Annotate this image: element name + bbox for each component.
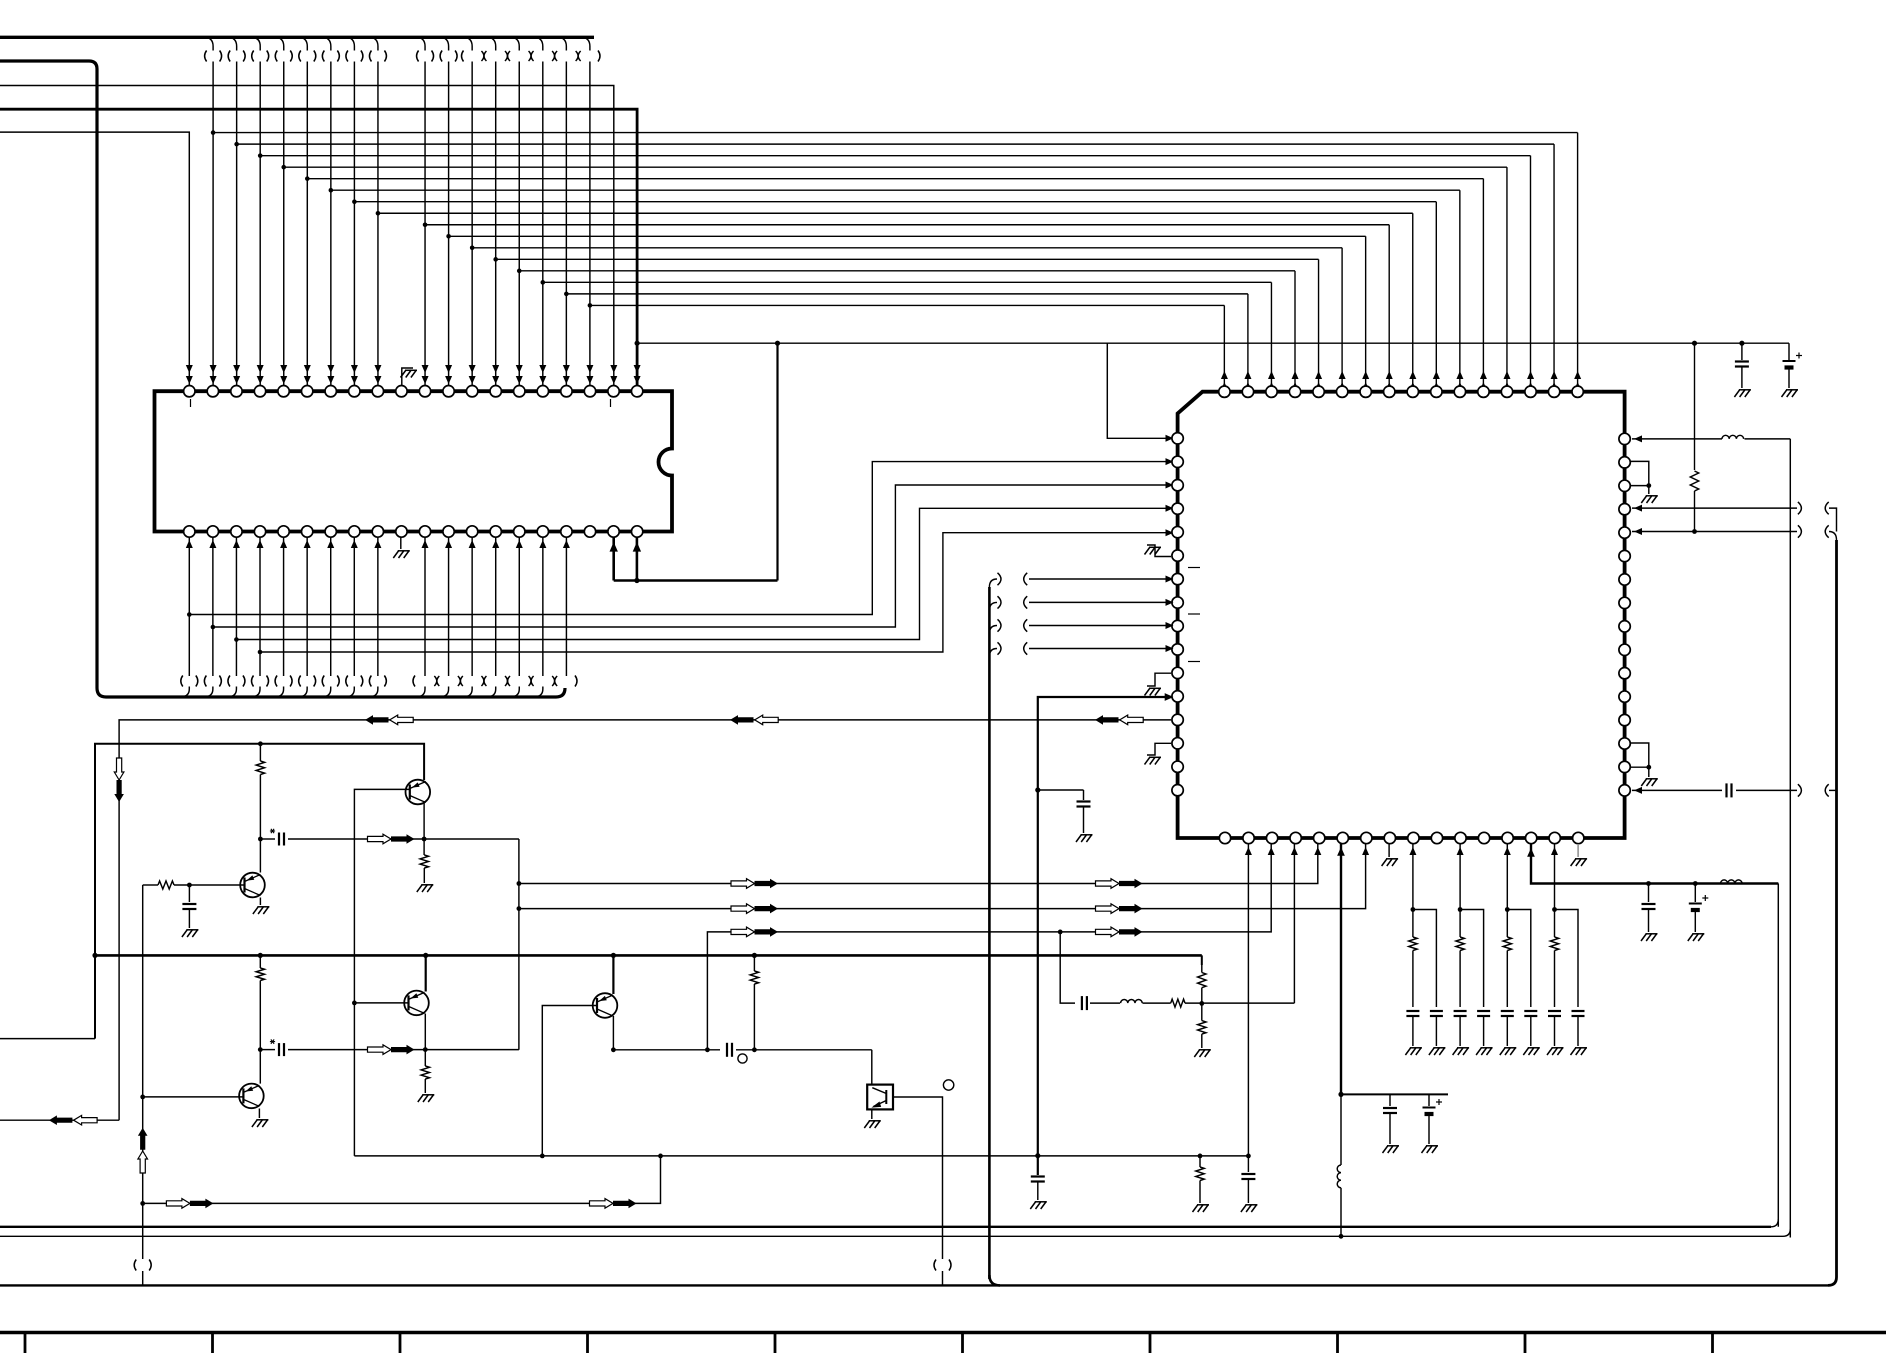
IC U1 top pins <box>184 386 195 397</box>
thick bus x=1836.5 down right side <box>1835 540 1838 1277</box>
power rail y=343 from pin20 drop to NE caps <box>637 342 1789 344</box>
QFP bottom pin B6 thick net: caps, inductor, to y=1237.5 line <box>1340 844 1342 1094</box>
IC U1 bottom pins <box>184 526 195 537</box>
rail A tap resistor to Q1 chain <box>258 741 263 746</box>
vertical x=519 from y=839 to y=1049.7 <box>518 839 520 1050</box>
staircase taps from bottom wires 1-4 to QFP left pins <box>187 612 192 617</box>
IC1 top pin double arrowheads <box>186 365 193 373</box>
right arrows on y=1203.4 line <box>166 1199 190 1209</box>
Q2 collector to ground <box>258 1109 260 1119</box>
QFP right pin R1 wire with inductor to vertical x=1790.3 <box>1632 438 1722 440</box>
QFP left pin L12 thick wire from bus x=1037.8 <box>1038 697 1171 1175</box>
line C y=1049.8 with series cap and test point <box>613 1049 720 1051</box>
Q3b collector thick from rail B <box>423 953 428 958</box>
final bracket after last bottom wire <box>575 676 577 687</box>
IC U2 bottom pins <box>1219 832 1230 843</box>
rail tap down to QFP left pin L1 <box>1107 343 1169 438</box>
junction to resistor chain x=1694.5 <box>1692 341 1697 346</box>
IC U2 right pins <box>1619 433 1630 444</box>
transistor Q2 <box>239 1084 264 1109</box>
junction x=660.5 down to arrow line y=1203.4 <box>143 1156 661 1204</box>
transistor Q4 <box>593 993 618 1018</box>
QFP bottom RC ladder columns B9,B11,B13,B15 <box>1412 844 1414 910</box>
ground stub at QFP bottom pin B8 <box>1388 844 1390 857</box>
B6 inductor down to line y=1237.5 <box>1340 1094 1342 1165</box>
QFP left pins L7-L10 wires with inline connectors joining vertical bus x=989.4 <box>1029 578 1169 580</box>
rail B y=955.4 (thick) from x=95 to resistor corner x=1202.9 <box>95 954 1202 957</box>
riser x=777.5 to power rail y=343 <box>776 343 778 580</box>
caps to ground on B6 branch <box>1389 1094 1391 1106</box>
line L3 y=931.9 corner x=707.4 to QFP bottom pin B3 <box>707 844 1271 1050</box>
IC U2 body (QFP) with chamfered top-left corner <box>1178 392 1625 838</box>
Q4 emitter to line C <box>612 1016 614 1051</box>
down double arrow on x=119 vertical <box>114 758 124 780</box>
B14 chain vertical x=1778.3 down to y=1226.8 line <box>1777 884 1779 1227</box>
inline connector row on bottom wires <box>181 676 183 687</box>
junction and capacitor to ground on L12 net <box>1035 787 1040 792</box>
resistor chain x=1694.5 from rail y=343 to R5 line <box>1694 343 1696 470</box>
Q3 base from vertical x=354.4 <box>354 789 409 1003</box>
line y=1155.8 from x=354 corner to QFP B2 column <box>354 1155 1248 1157</box>
Q3 emitter chain: junction, resistor, ground <box>423 803 425 840</box>
test point circle near connector corner <box>943 1080 953 1090</box>
left feed line y=1038.6 to x=0 <box>0 1038 95 1040</box>
up double arrow on x=142.7 wire <box>138 1128 148 1150</box>
ground bracket at QFP left pin L14 <box>1147 743 1171 755</box>
Q1 base network: corner wire, resistor, cap to ground <box>143 884 158 886</box>
Q3b base from x=354.4 junction <box>352 1001 357 1006</box>
QFP right pin R4 wire with connector to x=1836.5 <box>1632 507 1797 509</box>
Q4 collector thick from rail B <box>611 953 616 958</box>
long wire y=1237.5 from x=0 to R1 corner <box>0 1235 1783 1237</box>
long wire y=720 from x=119 to QFP left pin L13 <box>119 720 1171 1120</box>
boxed transistor base wire to connector and bottom line <box>893 1097 943 1259</box>
ground bracket at QFP left pin L6 <box>1147 545 1171 557</box>
transistor Q3b <box>404 991 429 1016</box>
line L1 y=883.5 from x=519 to QFP bottom pin B5 <box>517 881 522 886</box>
IC U1 bottom pin wires with up arrowheads <box>188 537 190 676</box>
ground below IC U1 bottom pin10 <box>400 537 402 549</box>
direction arrows on y=720 wire <box>365 715 389 725</box>
transistor Q1 <box>240 873 265 898</box>
x=142.7 signal wire from Q1 base corner to bottom connector <box>142 885 144 1259</box>
wire left feed y=109.2 thick to IC1 pin20 drop (power) <box>0 109 637 385</box>
Q3b emitter chain: junction, resistor, ground <box>424 1014 426 1050</box>
QFP right pin R5 wire with connector joining thick bus x=1836.5 <box>1632 531 1797 533</box>
R1 vertical x=1790.3 down to y=1237.5 line <box>1789 439 1791 1238</box>
Q1 collector to ground <box>259 898 261 906</box>
IC U2 inner dashes near left pins <box>1188 567 1200 569</box>
NE electrolytic capacitor to ground <box>1788 343 1790 360</box>
left arrows on y=1120 wire to left edge <box>0 1119 119 1121</box>
connector X overlaps top row <box>462 51 464 62</box>
ground bracket QFP right pins R2-R3 <box>1631 461 1649 485</box>
caps and inductor on B14 chain <box>1646 881 1651 886</box>
IC U2 left pins <box>1172 433 1183 444</box>
IC U1 body (DIP) with notch on right edge <box>155 391 673 531</box>
bus drop arcs and vertical wires to IC1 top pins <box>204 37 213 50</box>
IC U1 inner pin-number ticks <box>190 399 192 407</box>
ground stub at QFP bottom pin B16 (gray) <box>1577 844 1579 857</box>
sheet border line y=1332.5 with zone ticks <box>0 1331 1886 1334</box>
ground bracket QFP right pins R14-R15 <box>1631 743 1649 767</box>
resistor to ground at x=1200 on y=1155.8 line <box>1198 1154 1203 1159</box>
wire left feed y=85.5 to IC1 pin19 drop <box>0 86 614 386</box>
final bracket after last top drop <box>598 51 600 62</box>
connector X overlaps bottom row <box>413 676 415 687</box>
wire left feed y=132.1 to IC1 pin1 <box>0 132 189 385</box>
inline connector row on top drops <box>205 51 207 62</box>
QFP bottom pin B2 wire to y=1155.8 with cap to ground <box>1247 844 1249 1156</box>
QFP bottom pin B14 thick wire to right chain <box>1531 844 1778 884</box>
QFP right pin R16 wire with series cap and connector to bus <box>1632 789 1722 791</box>
rail B resistor tap x=754.4 <box>752 953 757 958</box>
rail B right resistor divider at x=1202 <box>1201 955 1203 965</box>
connector bus vertical x=989.4 (thick) <box>988 587 991 1279</box>
line y=1003.2 from L3 tap chain to QFP bottom pin B4 <box>1058 930 1063 935</box>
wire top bus y=37 (thick) <box>0 36 594 39</box>
bus joining arcs for bottom wires <box>181 687 189 697</box>
IC1 bottom connector bus y=697 with end curves <box>97 688 565 697</box>
L12 net junction on line y=1155.7 and capacitor to ground <box>1035 1153 1040 1158</box>
rail A y=743.8 (top of transistor group A) <box>95 744 424 1039</box>
series feed capacitor with asterisk on y=1049.6 line <box>258 1047 263 1052</box>
right arrows on y=839 line <box>368 834 392 844</box>
NE decoupling capacitor to ground <box>1739 341 1744 346</box>
wire left feed y=61 thick with corner to vertical x=97 <box>0 61 97 688</box>
long thick wire y=1226.8 from x=0 to B14 chain corner <box>0 1226 1771 1228</box>
fan staircase: junction dots, horizontal lines, corners, verticals to QFP top pins <box>211 130 216 135</box>
x=354.4 vertical down to line y=1155.9 <box>353 1003 355 1156</box>
Q2 base wire from x=142.7 junction <box>140 1095 145 1100</box>
transistor Q3 <box>406 780 431 805</box>
ground bracket at QFP left pin L11 <box>1147 673 1171 686</box>
QFP top pin double arrowheads (up) <box>1221 371 1228 379</box>
long thick wire y=1285.4 from x=0 to right bus corner <box>0 1284 1828 1286</box>
boxed transistor (photo device) with ground <box>871 1050 873 1085</box>
Q4 base corner chain from line y=1155.9 <box>542 1006 597 1156</box>
IC U2 top pins <box>1219 386 1230 397</box>
IC U1 bottom pins 19-20 thick wires to y=580.5 rail <box>612 537 615 581</box>
series feed capacitor with asterisk on y=839 line <box>258 837 263 842</box>
line L2 y=908.6 from x=519 to QFP bottom pin B7 <box>517 906 522 911</box>
rail B tap to Q2 chain <box>258 953 263 958</box>
ground at IC U1 top pin10 <box>402 368 413 386</box>
